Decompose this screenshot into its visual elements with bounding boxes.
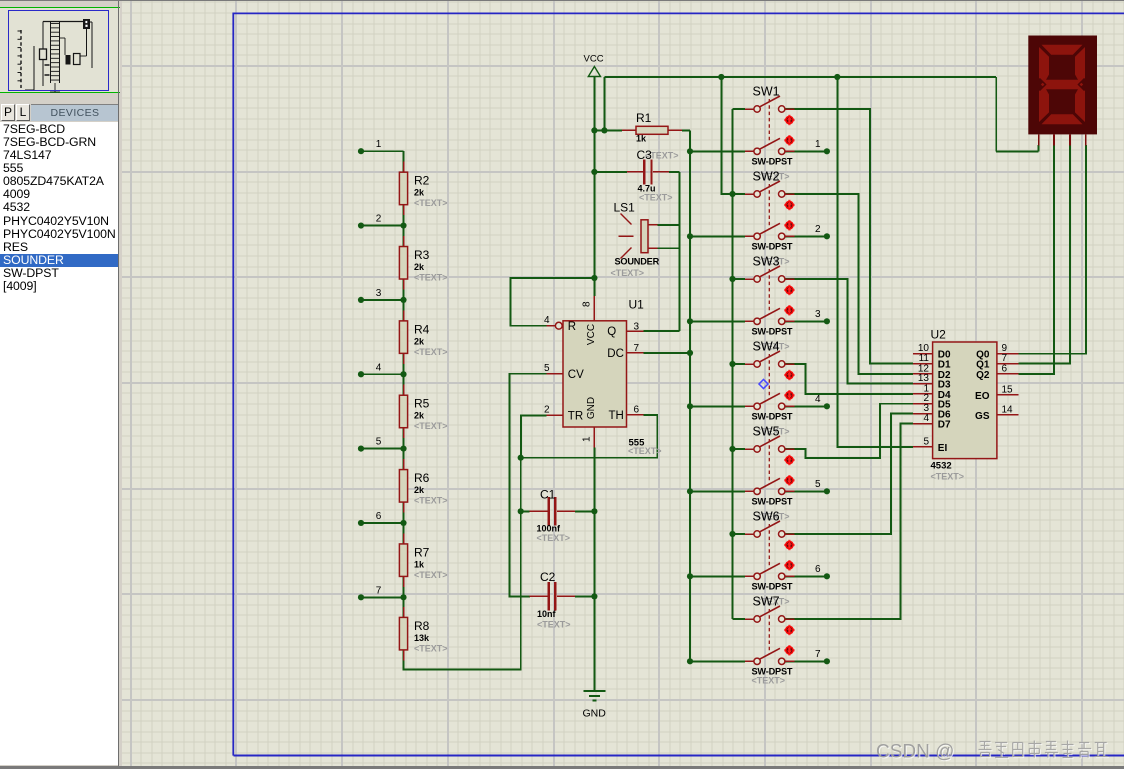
svg-text:8: 8 [582,301,593,307]
svg-text:R3: R3 [414,248,430,262]
svg-text:<TEXT>: <TEXT> [414,347,448,357]
svg-text:<TEXT>: <TEXT> [414,273,448,283]
svg-text:VCC: VCC [586,324,597,345]
svg-text:D7: D7 [938,420,951,431]
svg-text:SW-DPST: SW-DPST [752,411,793,421]
svg-text:3: 3 [376,288,382,299]
svg-text:C3: C3 [637,148,653,162]
svg-text:TR: TR [568,411,583,423]
svg-text:R8: R8 [414,619,430,633]
svg-text:R5: R5 [414,397,430,411]
svg-text:4: 4 [544,315,550,326]
svg-text:2: 2 [544,405,550,416]
svg-text:7: 7 [376,585,382,596]
svg-text:<TEXT>: <TEXT> [414,496,448,506]
svg-text:GS: GS [975,411,990,422]
svg-text:<TEXT>: <TEXT> [537,533,571,543]
svg-text:<TEXT>: <TEXT> [414,570,448,580]
svg-text:R7: R7 [414,545,430,559]
svg-text:6: 6 [634,405,640,416]
svg-text:SW7: SW7 [753,595,780,609]
svg-text:LS1: LS1 [614,201,636,215]
svg-text:6: 6 [1002,363,1008,374]
svg-text:<TEXT>: <TEXT> [628,446,662,456]
svg-text:2: 2 [376,214,382,225]
svg-text:4: 4 [815,394,821,405]
svg-text:<TEXT>: <TEXT> [414,198,448,208]
svg-text:SW5: SW5 [753,425,780,439]
svg-text:R2: R2 [414,174,430,188]
svg-text:<TEXT>: <TEXT> [611,268,645,278]
svg-text:6: 6 [376,511,382,522]
svg-text:R4: R4 [414,322,430,336]
svg-text:Q: Q [607,326,616,338]
svg-text:SW-DPST: SW-DPST [752,156,793,166]
svg-text:TH: TH [609,410,624,422]
svg-text:DC: DC [607,348,624,360]
svg-text:GND: GND [586,397,597,419]
svg-text:C2: C2 [540,570,556,584]
svg-text:CV: CV [568,369,584,381]
svg-text:SW3: SW3 [753,255,780,269]
svg-text:C1: C1 [540,488,556,502]
svg-text:2k: 2k [414,485,425,495]
svg-text:Q2: Q2 [976,370,990,381]
svg-text:R1: R1 [636,111,652,125]
svg-text:U2: U2 [931,328,947,342]
svg-text:14: 14 [1002,404,1014,415]
svg-text:1: 1 [582,436,593,442]
svg-text:4: 4 [923,413,929,424]
svg-text:5: 5 [376,437,382,448]
svg-text:CSDN @: CSDN @ [876,742,954,763]
svg-text:1k: 1k [414,559,425,569]
svg-text:<TEXT>: <TEXT> [414,643,448,653]
svg-text:SW2: SW2 [753,170,780,184]
svg-text:3: 3 [634,322,640,333]
svg-text:VCC: VCC [584,54,604,65]
svg-text:<TEXT>: <TEXT> [639,193,673,203]
svg-text:<TEXT>: <TEXT> [414,421,448,431]
svg-text:EO: EO [975,391,990,402]
svg-text:SW-DPST: SW-DPST [752,241,793,251]
svg-text:2k: 2k [414,411,425,421]
svg-text:SW-DPST: SW-DPST [752,326,793,336]
svg-text:<TEXT>: <TEXT> [931,472,965,482]
svg-text:5: 5 [815,479,821,490]
svg-text:SW1: SW1 [753,85,780,99]
svg-text:U1: U1 [629,298,645,312]
svg-text:5: 5 [544,363,550,374]
svg-text:<TEXT>: <TEXT> [537,620,571,630]
svg-text:<TEXT>: <TEXT> [752,676,786,686]
svg-text:R6: R6 [414,471,430,485]
svg-text:6: 6 [815,564,821,575]
svg-text:7: 7 [815,649,821,660]
svg-text:5: 5 [923,436,929,447]
svg-text:2k: 2k [414,188,425,198]
svg-text:2k: 2k [414,262,425,272]
svg-text:1k: 1k [636,134,647,144]
svg-text:3: 3 [815,309,821,320]
svg-text:GND: GND [583,708,607,720]
svg-text:2k: 2k [414,336,425,346]
svg-text:15: 15 [1002,384,1014,395]
svg-text:13k: 13k [414,633,430,643]
svg-text:4532: 4532 [931,461,952,472]
svg-text:R: R [568,321,576,333]
svg-text:SW6: SW6 [753,510,780,524]
svg-text:7: 7 [634,343,640,354]
svg-text:SW4: SW4 [753,340,780,354]
svg-text:SOUNDER: SOUNDER [615,257,660,267]
svg-text:1: 1 [815,139,821,150]
svg-text:SW-DPST: SW-DPST [752,496,793,506]
svg-text:100nf: 100nf [537,524,562,534]
svg-text:1: 1 [376,139,382,150]
svg-text:4: 4 [376,362,382,373]
svg-text:2: 2 [815,224,821,235]
svg-text:EI: EI [938,443,948,454]
svg-text:10nf: 10nf [537,609,557,619]
svg-text:SW-DPST: SW-DPST [752,581,793,591]
